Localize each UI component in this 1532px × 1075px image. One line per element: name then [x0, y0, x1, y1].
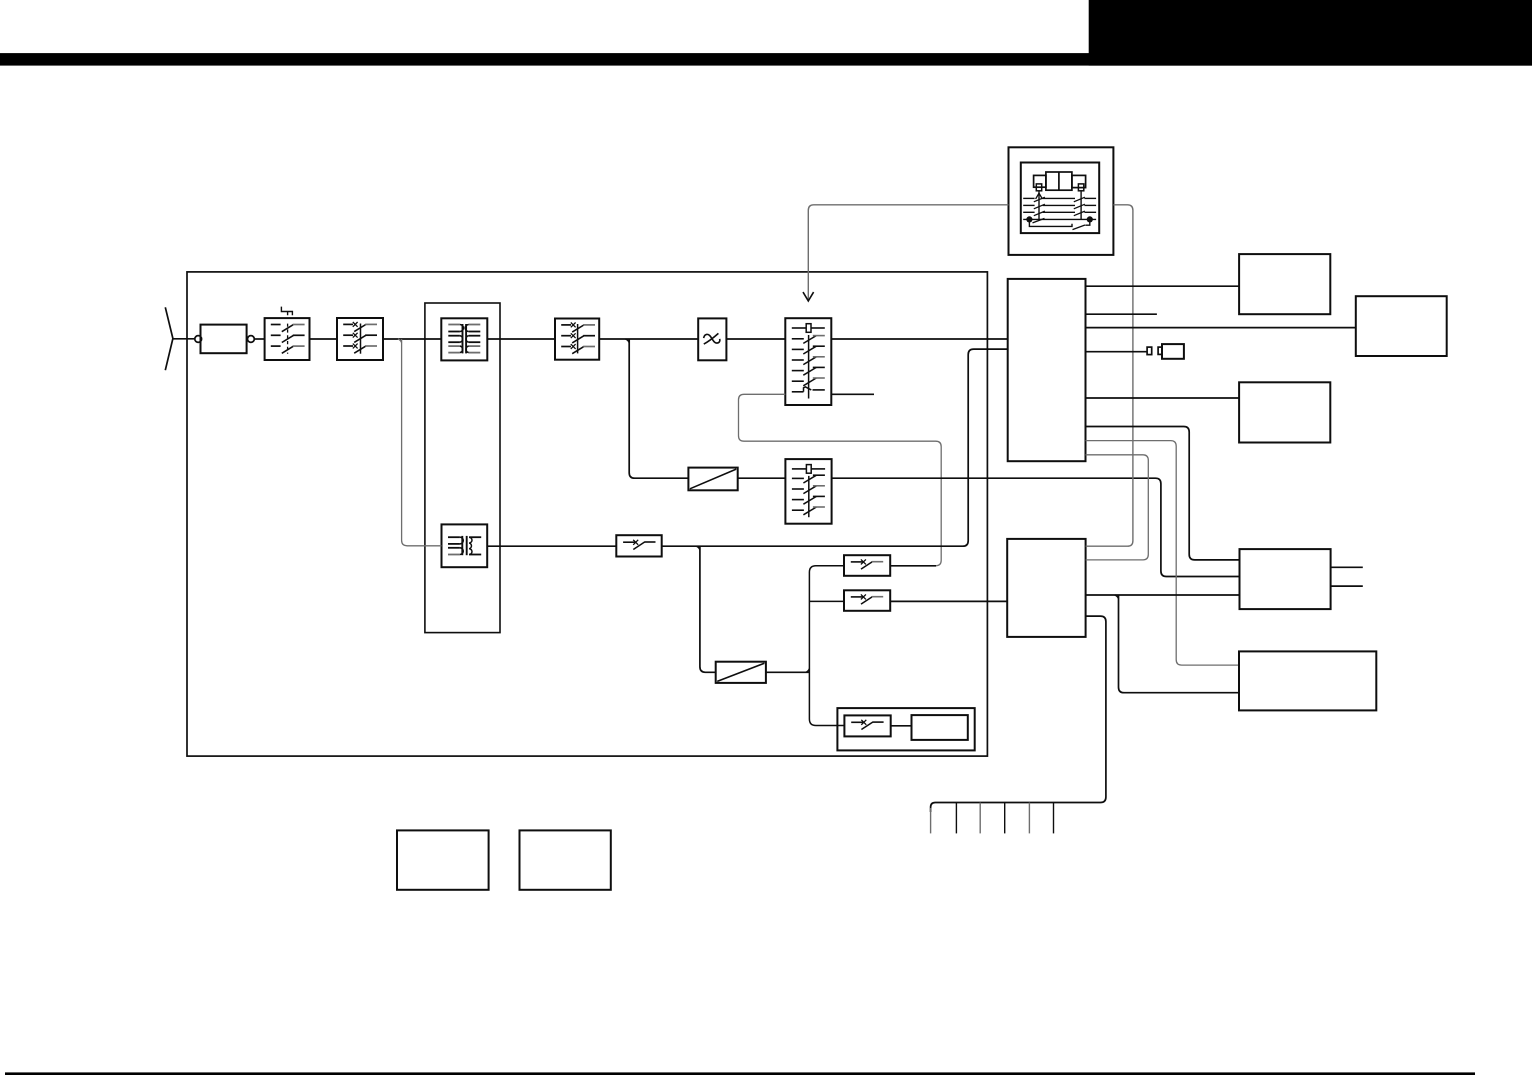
node circle (B1 output): [248, 336, 255, 343]
wire: [487, 545, 616, 547]
block B-R2: [1356, 296, 1447, 356]
header black title block (top-right): [1089, 0, 1532, 66]
IC2 (audio IC): [1007, 539, 1085, 637]
junction nub: [398, 339, 402, 343]
header black rule bar: [0, 53, 1532, 66]
wire (SW-A output segment): [890, 565, 936, 567]
footer rule: [5, 1072, 1475, 1075]
step symbol above S1: [281, 307, 292, 316]
jack connector: [1158, 347, 1162, 354]
wire (branch down to level set 2): [700, 546, 716, 672]
IC1 (tuner system IC): [1008, 279, 1086, 461]
mixer block (script-x): [698, 318, 726, 360]
main board outline box: [187, 272, 987, 756]
block B-R3: [1239, 382, 1330, 442]
transformer T1 (RF input transformer): [441, 318, 487, 360]
switch SW0 (AM gate): [616, 535, 661, 556]
node circle (antenna input): [195, 336, 202, 343]
level block L2 (diagonal box): [716, 662, 766, 683]
wire (B-R4 stub 1): [1331, 566, 1363, 568]
wire (branch to level set 1): [629, 339, 688, 478]
switch SW-C (record gate): [844, 715, 890, 736]
wire B (IC1 to B-R5, gray): [1086, 441, 1240, 665]
tuning capacitor assembly: [1009, 147, 1114, 255]
wire (SW-T1 right stub): [831, 393, 874, 395]
wire: [487, 338, 555, 340]
wire: [383, 338, 441, 340]
sub-assembly enclosure: [837, 708, 974, 750]
arrowhead (points to SW-T1): [803, 292, 814, 301]
wire (SW-B to IC2): [890, 600, 1007, 602]
block B1 (antenna coupling box): [201, 325, 247, 354]
wire (vertical bus): [809, 566, 844, 726]
antenna: [165, 307, 173, 370]
switch SW-A (mode gate A): [844, 555, 890, 576]
block B2 (detector): [912, 715, 968, 740]
wire (tuner to IC2, gray): [1086, 205, 1133, 546]
junction nub: [1115, 595, 1119, 599]
wire (branch to B-R5): [1119, 595, 1240, 693]
wire (branch to T2, gray): [402, 339, 442, 546]
transformer T2 (AM antenna transformer): [442, 524, 488, 567]
wire (IC1 stub): [1086, 313, 1157, 315]
wire: [726, 338, 785, 340]
switch S2 (band switch with contacts): [337, 318, 383, 360]
wire: [738, 477, 786, 479]
wire (IC1 to B-R1): [1086, 285, 1240, 287]
wire (IC1 to B-R3): [1086, 397, 1240, 399]
wire C (IC1 to IC2, gray): [1086, 455, 1149, 560]
transformer sub-board enclosure: [425, 303, 500, 633]
switch S1 (band switch, ganged-dashed): [265, 318, 310, 360]
wire: [599, 338, 698, 340]
wire (SW0 to IC1 pin): [662, 349, 1008, 546]
block B-L2 (speaker box): [520, 830, 611, 889]
wire: [766, 671, 810, 673]
block B-R4: [1240, 549, 1331, 609]
block B-R5: [1239, 651, 1376, 710]
wire A (IC1 to B-R4): [1086, 427, 1240, 560]
wire: [254, 338, 264, 340]
junction nub: [696, 546, 700, 550]
wire (IC2 to connector comb): [931, 616, 1106, 812]
selector SW-T2 (AM tuning selector): [785, 459, 831, 524]
wire (B-R4 stub 2): [1331, 585, 1363, 587]
connector comb pin 1 (gray): [930, 808, 932, 833]
junction nub: [806, 669, 810, 673]
wire (IC1 to jack): [1086, 351, 1148, 353]
block B-R1: [1239, 254, 1330, 314]
switch SW-B (mode gate B): [844, 590, 890, 611]
wire (bus branch to SW-B): [809, 600, 844, 602]
block B-L1 (speaker box): [397, 830, 489, 889]
level block L1 (diagonal box): [688, 468, 737, 491]
wire: [891, 725, 912, 727]
wire (IC2 to B-R4 lower): [1086, 594, 1240, 596]
plug pin (small): [1147, 347, 1152, 355]
wire (tuner to SW-T1, gray, with arrow): [808, 205, 1008, 300]
wire: [310, 338, 338, 340]
connector comb pins: [955, 803, 957, 834]
wire (IC1 to B-R2): [1086, 327, 1356, 329]
wire (SW-T2 out to B-R4): [832, 478, 1240, 576]
wire (SW-T1 left stub to feedback, gray): [739, 394, 942, 566]
wire: [831, 338, 1007, 340]
switch S3 (band switch with contacts): [555, 319, 599, 360]
selector SW-T1 (FM tuning selector): [785, 318, 831, 405]
junction nub: [626, 339, 630, 343]
